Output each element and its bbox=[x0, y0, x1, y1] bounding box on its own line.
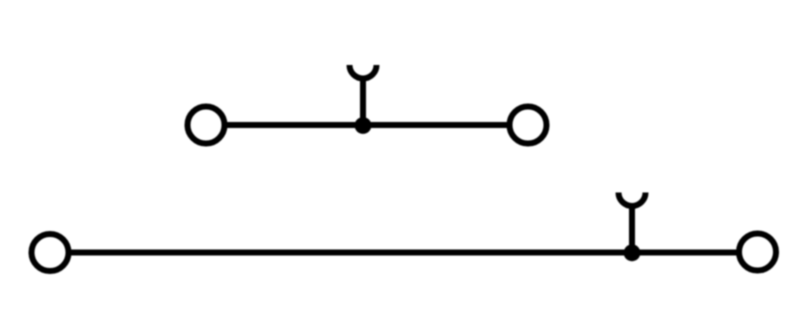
wire: upper tap stem bbox=[360, 78, 366, 125]
test socket arc: upper tap bbox=[350, 65, 377, 79]
node: upper test-tap junction bbox=[355, 117, 372, 134]
test socket arc: lower tap bbox=[619, 193, 646, 207]
node: lower test-tap junction bbox=[624, 244, 641, 261]
terminal circle: upper right clamp point bbox=[510, 107, 547, 144]
terminal circle: lower right clamp point bbox=[739, 234, 776, 271]
wire: lower tap stem bbox=[629, 206, 635, 253]
wire: upper level conductor bbox=[206, 122, 528, 128]
wire: lower level conductor bbox=[50, 250, 758, 256]
terminal circle: lower left clamp point bbox=[32, 234, 69, 271]
terminal circle: upper left clamp point bbox=[188, 107, 225, 144]
